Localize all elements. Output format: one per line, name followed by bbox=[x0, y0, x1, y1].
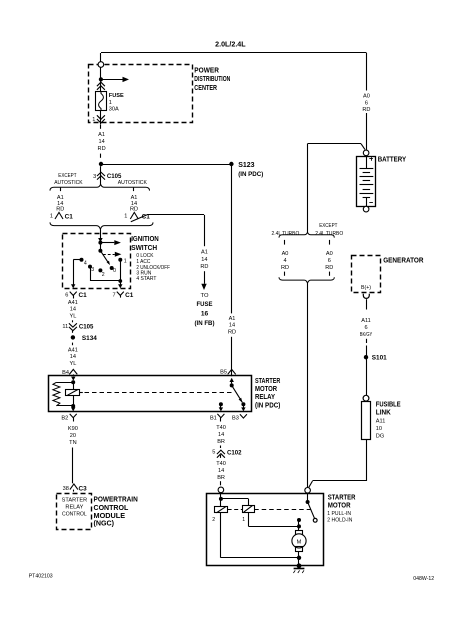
svg-text:A41: A41 bbox=[68, 300, 78, 306]
svg-text:11: 11 bbox=[62, 324, 68, 330]
connector chevrons above fuse bbox=[97, 82, 105, 86]
svg-text:A41: A41 bbox=[68, 347, 78, 353]
svg-text:MOTOR: MOTOR bbox=[255, 386, 277, 393]
wire A41 14 YL bbox=[68, 300, 78, 320]
wire fuse to pin 1 exit bbox=[100, 111, 102, 125]
svg-text:1: 1 bbox=[50, 214, 53, 220]
svg-text:5: 5 bbox=[212, 449, 215, 455]
svg-text:3: 3 bbox=[91, 267, 94, 273]
label STARTER MOTOR 1 PULL-IN 2 HOLD-IN bbox=[327, 494, 355, 523]
ignition switch box bbox=[63, 234, 131, 289]
starter motor M1 box bbox=[207, 494, 324, 566]
terminal circle starter B+ bbox=[305, 488, 311, 494]
arrow feed right in PDC bbox=[101, 79, 123, 81]
svg-text:RD: RD bbox=[325, 265, 333, 271]
svg-text:B1: B1 bbox=[210, 416, 217, 422]
relay contact B1 bbox=[219, 402, 223, 406]
svg-text:7: 7 bbox=[112, 292, 115, 298]
svg-text:BR: BR bbox=[217, 439, 225, 445]
svg-text:C105: C105 bbox=[79, 324, 94, 331]
relay pin B5 bbox=[228, 369, 236, 374]
wire S123 down to relay B5 bbox=[231, 164, 233, 313]
label EXCEPT AUTOSTICK bbox=[54, 173, 147, 186]
svg-text:6: 6 bbox=[328, 258, 331, 264]
wire K90 20 TN bbox=[68, 426, 78, 446]
svg-text:C1: C1 bbox=[65, 213, 74, 220]
brace split turbo bbox=[279, 232, 334, 237]
svg-text:YL: YL bbox=[69, 361, 76, 367]
svg-text:DISTRIBUTION: DISTRIBUTION bbox=[194, 76, 230, 83]
svg-text:YL: YL bbox=[69, 314, 76, 320]
connector C3 pin 38 bbox=[70, 484, 78, 490]
wire branch to fuse 16 bbox=[131, 215, 147, 222]
svg-text:6: 6 bbox=[65, 292, 68, 298]
svg-text:14: 14 bbox=[98, 139, 104, 145]
svg-text:1: 1 bbox=[124, 214, 127, 220]
svg-text:FUSE: FUSE bbox=[197, 301, 214, 308]
relay contact B3 bbox=[241, 402, 245, 406]
wire top feed horizontal bbox=[101, 52, 367, 54]
svg-text:A1: A1 bbox=[201, 249, 208, 255]
node relay coil bottom bbox=[71, 404, 75, 408]
svg-text:4: 4 bbox=[84, 260, 87, 266]
wire contact 4 to pin 6 bbox=[73, 259, 81, 261]
svg-text:A0: A0 bbox=[326, 251, 333, 257]
svg-text:RD: RD bbox=[228, 330, 236, 336]
svg-text:POWER: POWER bbox=[194, 67, 219, 74]
svg-text:14: 14 bbox=[218, 432, 224, 438]
svg-text:(IN FB): (IN FB) bbox=[195, 320, 215, 327]
svg-text:C1: C1 bbox=[125, 292, 134, 299]
svg-text:A1: A1 bbox=[229, 316, 236, 322]
power distribution center box bbox=[89, 65, 193, 123]
wire junction down to C105 bbox=[100, 166, 102, 184]
svg-text:AUTOSTICK: AUTOSTICK bbox=[54, 180, 83, 186]
wire A41 14 YL to relay bbox=[68, 347, 78, 367]
brace merge turbo bbox=[279, 277, 334, 283]
svg-text:S123: S123 bbox=[238, 162, 254, 169]
resistor relay shunt bbox=[56, 382, 73, 384]
svg-text:STARTER: STARTER bbox=[255, 378, 280, 385]
arrow to fuse 16 bbox=[204, 271, 206, 284]
svg-text:A11: A11 bbox=[361, 318, 371, 324]
brace split below C105 bbox=[50, 184, 150, 190]
relay pin B1 bbox=[217, 414, 224, 418]
svg-text:4 START: 4 START bbox=[136, 276, 157, 282]
label POWERTRAIN CONTROL MODULE (NGC) bbox=[94, 494, 138, 527]
splice S123 bbox=[229, 162, 233, 166]
svg-text:2: 2 bbox=[212, 517, 215, 523]
switch wiper blade bbox=[100, 251, 109, 264]
wire T40 14 BR lower bbox=[216, 461, 226, 481]
svg-text:A11: A11 bbox=[376, 418, 386, 424]
svg-text:3: 3 bbox=[93, 174, 96, 180]
node junction in PDC bbox=[99, 77, 103, 81]
wire T40 14 BR upper bbox=[216, 425, 226, 445]
svg-text:14: 14 bbox=[70, 307, 76, 313]
connector C1 pin 1 right bbox=[130, 212, 138, 219]
svg-text:PT402103: PT402103 bbox=[29, 574, 53, 580]
svg-text:(IN PDC): (IN PDC) bbox=[255, 403, 280, 410]
svg-text:14: 14 bbox=[218, 468, 224, 474]
svg-text:RD: RD bbox=[362, 107, 370, 113]
wire battery branch down bbox=[307, 144, 309, 233]
svg-text:TO: TO bbox=[201, 293, 209, 299]
svg-text:2.4L TURBO: 2.4L TURBO bbox=[315, 231, 344, 237]
svg-text:STARTER: STARTER bbox=[62, 497, 88, 503]
svg-text:B3: B3 bbox=[232, 416, 239, 422]
svg-text:14: 14 bbox=[70, 354, 76, 360]
wire to S123 bbox=[101, 164, 231, 166]
svg-text:MOTOR: MOTOR bbox=[328, 503, 351, 510]
connector C105 pin 3 bbox=[97, 172, 105, 176]
svg-text:20: 20 bbox=[70, 433, 76, 439]
wire A1 14 RD below PDC bbox=[100, 125, 102, 129]
svg-text:2: 2 bbox=[102, 272, 105, 278]
terminal circle PDC top bbox=[98, 62, 104, 68]
connector C1 pin 6 bbox=[70, 292, 77, 296]
wire coil 1 to motor node bbox=[248, 512, 250, 526]
svg-text:B2: B2 bbox=[61, 416, 68, 422]
svg-text:1: 1 bbox=[242, 517, 245, 523]
fusible link F2 bbox=[363, 395, 369, 401]
svg-text:BK/GY: BK/GY bbox=[360, 332, 373, 338]
relay pin B2 bbox=[70, 414, 77, 418]
solenoid switch arm bbox=[307, 493, 309, 500]
relay pin B4 bbox=[69, 369, 77, 374]
svg-text:A0: A0 bbox=[282, 251, 289, 257]
wire coil 2 to ground bus bbox=[220, 513, 222, 558]
relay U1 starter motor relay box bbox=[49, 376, 252, 412]
svg-text:C105: C105 bbox=[107, 173, 122, 180]
svg-text:K90: K90 bbox=[68, 426, 78, 432]
label IGNITION SWITCH bbox=[131, 236, 170, 282]
svg-text:10: 10 bbox=[376, 426, 382, 432]
connector pin 1 chevrons at PDC exit bbox=[97, 115, 105, 119]
ground bbox=[297, 563, 302, 568]
connector C102 pin 5 bbox=[220, 446, 222, 449]
wire into ignition switch bbox=[100, 229, 102, 238]
svg-text:IGNITION: IGNITION bbox=[131, 236, 159, 243]
svg-text:2 HOLD-IN: 2 HOLD-IN bbox=[327, 518, 352, 524]
arrow accessory feed bbox=[100, 242, 114, 244]
svg-text:GENERATOR: GENERATOR bbox=[383, 258, 423, 265]
brace merge above ignition switch bbox=[50, 222, 153, 229]
svg-text:1: 1 bbox=[92, 117, 95, 123]
svg-text:FUSIBLE: FUSIBLE bbox=[376, 401, 401, 408]
svg-text:T40: T40 bbox=[216, 461, 226, 467]
svg-text:M: M bbox=[297, 539, 302, 545]
module PCM box bbox=[57, 494, 92, 530]
coil 2 hold-in bbox=[215, 507, 228, 513]
svg-text:RD: RD bbox=[281, 265, 289, 271]
svg-text:RELAY: RELAY bbox=[65, 504, 84, 510]
relay coil winding bbox=[73, 382, 75, 389]
svg-text:EXCEPT: EXCEPT bbox=[319, 223, 338, 229]
wire A0 6 RD branch bbox=[329, 240, 331, 245]
wire dot to fuse bbox=[100, 81, 102, 91]
wire right drop to battery bbox=[366, 53, 368, 91]
splice S101 bbox=[364, 355, 368, 359]
svg-text:S101: S101 bbox=[372, 355, 387, 362]
svg-text:AUTOSTICK: AUTOSTICK bbox=[118, 180, 147, 186]
svg-text:RD: RD bbox=[98, 146, 106, 152]
fuse F1 30A bbox=[96, 92, 107, 111]
label STARTER MOTOR RELAY (IN PDC) bbox=[255, 378, 280, 409]
svg-text:EXCEPT: EXCEPT bbox=[58, 173, 77, 179]
svg-text:RD: RD bbox=[200, 264, 208, 270]
svg-text:A1: A1 bbox=[98, 132, 105, 138]
wire solenoid feed inside bbox=[220, 493, 222, 507]
svg-text:STARTER: STARTER bbox=[328, 494, 356, 501]
wire contacts 1,3 to pin 7 bbox=[120, 260, 122, 281]
svg-text:2.4L TURBO: 2.4L TURBO bbox=[272, 231, 300, 237]
relay B4 entry arrow bbox=[71, 377, 75, 381]
svg-text:B5: B5 bbox=[220, 369, 227, 375]
svg-text:RELAY: RELAY bbox=[255, 394, 275, 401]
svg-text:2.0L/2.4L: 2.0L/2.4L bbox=[215, 41, 246, 48]
node relay coil top bbox=[71, 380, 75, 384]
connector C105 pin 11 bbox=[72, 320, 74, 322]
relay switch arm bbox=[230, 378, 234, 382]
svg-text:T40: T40 bbox=[216, 425, 226, 431]
connector C1 pin 7 bbox=[117, 292, 124, 296]
svg-text:30A: 30A bbox=[109, 106, 119, 112]
svg-text:CONTROL: CONTROL bbox=[62, 511, 87, 517]
wire solenoid linkage dashed bbox=[228, 509, 242, 511]
svg-text:14: 14 bbox=[229, 323, 235, 329]
node ground bus bbox=[297, 556, 301, 560]
label A0 6 RD battery feed bbox=[362, 93, 370, 113]
wire relay linkage dashed bbox=[79, 392, 83, 394]
svg-text:38: 38 bbox=[63, 486, 69, 492]
svg-text:1: 1 bbox=[124, 258, 127, 264]
svg-text:C3: C3 bbox=[79, 485, 88, 492]
connector C1 pin 1 left bbox=[55, 212, 63, 219]
arrow ignition feed dashed bbox=[103, 254, 115, 256]
relay pin B3 bbox=[240, 414, 247, 418]
node motor contact bbox=[297, 518, 301, 522]
svg-text:RD: RD bbox=[130, 207, 138, 213]
svg-text:6: 6 bbox=[364, 325, 367, 331]
svg-text:0: 0 bbox=[113, 268, 116, 274]
svg-text:1: 1 bbox=[109, 100, 112, 106]
svg-text:(IN PDC): (IN PDC) bbox=[238, 171, 263, 178]
coil 1 pull-in bbox=[243, 506, 255, 513]
svg-text:BATTERY: BATTERY bbox=[378, 157, 407, 164]
svg-text:6: 6 bbox=[365, 100, 368, 106]
svg-text:A0: A0 bbox=[363, 93, 370, 99]
svg-text:DG: DG bbox=[376, 433, 384, 439]
svg-text:(NGC): (NGC) bbox=[94, 519, 115, 528]
wire right autostick branch bbox=[133, 188, 135, 192]
svg-text:S134: S134 bbox=[82, 335, 97, 342]
svg-text:FUSE: FUSE bbox=[109, 93, 124, 99]
svg-text:C1: C1 bbox=[79, 292, 88, 299]
label POWER DISTRIBUTION CENTER bbox=[194, 67, 230, 91]
terminal circle starter solenoid feed bbox=[218, 487, 224, 493]
node junction left at S123 line bbox=[99, 162, 103, 166]
motor M bbox=[296, 531, 303, 536]
wire left drop to PDC bbox=[100, 53, 102, 62]
svg-text:RD: RD bbox=[56, 207, 64, 213]
label 2.4L TURBO / EXCEPT 2.4L TURBO bbox=[272, 223, 344, 237]
svg-text:048W-12: 048W-12 bbox=[413, 576, 434, 582]
svg-text:1 PULL-IN: 1 PULL-IN bbox=[327, 511, 351, 517]
svg-text:16: 16 bbox=[201, 310, 209, 317]
node feed dots bbox=[98, 241, 102, 245]
svg-text:BR: BR bbox=[217, 475, 225, 481]
svg-text:LINK: LINK bbox=[376, 410, 391, 417]
svg-text:C102: C102 bbox=[227, 449, 242, 456]
svg-text:CENTER: CENTER bbox=[194, 85, 217, 92]
splice S134 bbox=[71, 335, 75, 339]
wire A11 6 BK/GY bbox=[366, 299, 368, 309]
wire to starter B+ bbox=[307, 283, 309, 487]
battery BT1 bbox=[308, 143, 362, 145]
wire A0 4 RD branch bbox=[284, 240, 286, 245]
generator G1 box bbox=[352, 256, 381, 293]
svg-text:14: 14 bbox=[201, 257, 207, 263]
svg-text:4: 4 bbox=[283, 258, 286, 264]
svg-text:B(+): B(+) bbox=[361, 285, 371, 291]
svg-text:TN: TN bbox=[69, 440, 76, 446]
switch contacts 4 3 2 0 1 bbox=[80, 258, 84, 262]
wire fusible link to starter bbox=[366, 440, 368, 481]
svg-text:SWITCH: SWITCH bbox=[131, 245, 157, 252]
wire left autostick branch bbox=[60, 188, 62, 192]
